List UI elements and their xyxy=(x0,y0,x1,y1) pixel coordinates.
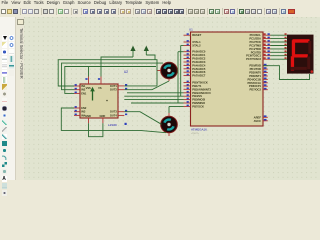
IC U2 body (L293D) xyxy=(80,84,118,118)
DC motor M1 xyxy=(161,62,178,79)
display pin 7 red number xyxy=(285,54,287,56)
U1 pin 13 XTAL1 xyxy=(184,41,191,43)
svg-text:PA6/ADC6: PA6/ADC6 xyxy=(192,70,206,74)
U1 pin 4 PB3/AIN1/OC0 xyxy=(184,92,191,94)
U1 pin 24 PC2/TCK xyxy=(263,41,271,43)
U1 pin 25 PC3/TMS xyxy=(263,45,271,47)
U2 pin OUT2 xyxy=(118,89,124,91)
svg-text:PD4/OC1B: PD4/OC1B xyxy=(248,77,262,81)
U1 pin 29 PC7/TOSC2 xyxy=(263,58,271,60)
U1 pin 20 PD6/ICP1 xyxy=(263,85,268,87)
U1 pin 8 PB7/SCK xyxy=(184,106,191,108)
display segment F (lit) xyxy=(292,40,295,56)
U2 pin OUT4 xyxy=(118,114,124,116)
wire U1 PC2/TCK to display pin 3 xyxy=(271,41,288,43)
display pin 4 red number xyxy=(285,44,287,46)
U2 hidden-text blue mark xyxy=(125,123,127,125)
svg-text:PA0/ADC0: PA0/ADC0 xyxy=(192,50,206,54)
svg-text:EN2: EN2 xyxy=(81,106,87,110)
svg-text:PD6/ICP1: PD6/ICP1 xyxy=(249,84,261,88)
U1 pin 18 PD4/OC1B xyxy=(263,78,268,80)
motor M1 bottom pin stub xyxy=(168,79,170,81)
display segment C (unlit) xyxy=(307,57,310,70)
7-segment display body xyxy=(287,35,314,74)
menu bar xyxy=(2,0,320,7)
U1 pin 23 PC1/SDA xyxy=(263,38,271,40)
schematic canvas xyxy=(24,17,320,180)
collapsed panel Terminal Selector - POWER xyxy=(16,17,25,180)
svg-text:PC7/TOSC2: PC7/TOSC2 xyxy=(246,57,261,61)
svg-text:PB3/AIN1/OC0: PB3/AIN1/OC0 xyxy=(192,91,211,95)
wire motor2 top to PB7 net xyxy=(168,107,170,114)
U2 bottom pin GND 1 xyxy=(88,118,90,123)
wire stub XTAL2 xyxy=(181,45,184,47)
U1 pin 21 PD7/OC2 xyxy=(263,89,268,91)
U1 pin 30 AVCC xyxy=(263,120,268,122)
U2 pin EN2 xyxy=(74,107,80,109)
U1 pin 39 PA1/ADC1 xyxy=(184,54,191,56)
U2 pin IN4 xyxy=(74,114,80,116)
display segment G (lit) xyxy=(292,54,308,57)
wire U1 PB bundle y=96.2 xyxy=(124,95,183,97)
display pin 3 red number xyxy=(285,40,287,42)
svg-text:AVCC: AVCC xyxy=(254,119,261,123)
display pin 2 red number xyxy=(285,37,287,39)
wire U2 EN1 loop xyxy=(65,67,156,94)
wire U1 PC5/TDI to display pin 6 xyxy=(271,51,288,53)
svg-text:VSS: VSS xyxy=(86,86,91,90)
motor M1 left pin xyxy=(157,70,161,72)
svg-text:PB0/T0/XCK: PB0/T0/XCK xyxy=(192,81,208,85)
U1 pin 28 PC6/TOSC1 xyxy=(263,55,271,57)
wire U2 VSS up xyxy=(88,67,90,77)
U1 pin 2 PB1/T1 xyxy=(184,85,191,87)
U2 pin IN3 xyxy=(74,111,80,113)
U2 pin OUT1 xyxy=(118,85,124,87)
wire U2 IN2 loop xyxy=(62,63,164,90)
wire U2 OUT3 diagonal to motor2 xyxy=(124,112,161,125)
U1 pin 12 XTAL2 xyxy=(184,45,191,47)
svg-text:OUT2: OUT2 xyxy=(110,88,117,92)
motor M2 bottom pin xyxy=(168,133,170,136)
U2 pin IN2 xyxy=(74,89,80,91)
svg-text:VS: VS xyxy=(98,86,102,90)
wire U1 PC6/TOSC1 to display pin 7 xyxy=(271,55,288,57)
U1 pin 1 PB0/T0/XCK xyxy=(184,82,191,84)
U1 pin 15 PD1/TXD xyxy=(263,68,268,70)
display segment B (unlit) xyxy=(308,41,311,54)
svg-text:RESET: RESET xyxy=(192,33,201,37)
wire U2 GND loop xyxy=(89,123,103,136)
display decimal point xyxy=(311,70,314,73)
U1 pin 27 PC5/TDI xyxy=(263,51,271,53)
svg-text:PB2/AIN0/INT2: PB2/AIN0/INT2 xyxy=(192,87,211,91)
left mode toolbar xyxy=(0,17,16,180)
U2 pin EN1 xyxy=(74,92,80,94)
display pin 8 red number xyxy=(285,57,287,59)
svg-text:PC6/TOSC1: PC6/TOSC1 xyxy=(246,54,261,58)
wire display common to U1 PD0 xyxy=(263,66,310,80)
svg-text:PA7/ADC7: PA7/ADC7 xyxy=(192,74,206,78)
svg-text:OUT3: OUT3 xyxy=(110,110,117,114)
U1 pin 16 PD2/INT0 xyxy=(263,72,268,74)
wire U1 PC1/SDA to display pin 2 xyxy=(271,38,288,40)
svg-text:PC4/TDO: PC4/TDO xyxy=(249,47,261,51)
svg-text:PD0/RXD: PD0/RXD xyxy=(249,64,261,68)
svg-text:PC1/SDA: PC1/SDA xyxy=(249,37,261,41)
wire U1 PC4/TDO to display pin 5 xyxy=(271,48,288,50)
svg-text:IN2: IN2 xyxy=(81,88,86,92)
power terminal 1 xyxy=(130,46,135,51)
U1 pin 40 PA0/ADC0 xyxy=(184,51,191,53)
svg-text:PD7/OC2: PD7/OC2 xyxy=(249,88,261,92)
U2 top pin VS xyxy=(100,77,102,85)
svg-text:GND: GND xyxy=(100,114,106,118)
display pin 6 red number xyxy=(285,50,287,52)
wire U1 PB bundle y=99.6 xyxy=(124,99,183,101)
wire U1 PB bundle y=103 xyxy=(131,102,184,104)
svg-text:PA3/ADC3: PA3/ADC3 xyxy=(192,60,206,64)
svg-text:PA4/ADC4: PA4/ADC4 xyxy=(192,63,206,67)
motor M2 top pin xyxy=(168,113,170,116)
wire power2 down to net xyxy=(146,55,155,60)
display segment E (lit) xyxy=(291,56,294,70)
svg-text:PB5/MOSI: PB5/MOSI xyxy=(192,98,205,102)
svg-text:PD1/TXD: PD1/TXD xyxy=(250,67,261,71)
svg-text:<TEXT>: <TEXT> xyxy=(191,132,200,135)
svg-text:PA1/ADC1: PA1/ADC1 xyxy=(192,53,206,57)
power terminal 2 xyxy=(144,46,149,51)
display segment D (unlit) xyxy=(291,67,307,70)
svg-text:PB4/SS: PB4/SS xyxy=(192,94,202,98)
display segment A (lit) xyxy=(293,39,310,43)
wire U2 OUT2 diagonal to motor1 xyxy=(124,81,169,90)
svg-text:PC0/SCL: PC0/SCL xyxy=(250,33,262,37)
U1 pin 33 PA7/ADC7 xyxy=(184,75,191,77)
wire U1 PB bundle y=92.8 xyxy=(127,92,184,94)
svg-text:PB7/SCK: PB7/SCK xyxy=(192,105,204,109)
U2 top pin VSS xyxy=(88,77,90,85)
U1 pin 19 PD5/OC1A xyxy=(263,82,268,84)
wire U1 PC3/TMS to display pin 4 xyxy=(271,45,288,47)
U1 pin 22 PC0/SCL xyxy=(263,34,271,36)
U1 pin 34 PA6/ADC6 xyxy=(184,71,191,73)
U1 pin 32 AREF xyxy=(263,116,268,118)
U1 pin 17 PD3/INT1 xyxy=(263,75,268,77)
wire stub PA0 xyxy=(178,51,184,53)
U1 pin 26 PC4/TDO xyxy=(263,48,271,50)
wire vertical run B near U1 xyxy=(177,52,179,103)
svg-text:PA2/ADC2: PA2/ADC2 xyxy=(192,57,206,61)
svg-text:PB6/MISO: PB6/MISO xyxy=(192,101,205,105)
svg-text:XTAL1: XTAL1 xyxy=(192,40,201,44)
U1 pin 6 PB5/MOSI xyxy=(184,99,191,101)
U2 pin OUT3 xyxy=(118,111,124,113)
svg-text:IN1: IN1 xyxy=(81,84,86,88)
svg-text:EN1: EN1 xyxy=(81,91,87,95)
U1 pin 36 PA4/ADC4 xyxy=(184,64,191,66)
svg-text:OUT4: OUT4 xyxy=(110,113,117,117)
svg-text:GND: GND xyxy=(85,114,91,118)
U1 pin 7 PB6/MISO xyxy=(184,102,191,104)
U1 pin 9 RESET xyxy=(184,34,191,36)
main toolbar xyxy=(0,7,320,19)
DC motor M2 xyxy=(161,116,178,133)
wire vertical run A near U1 xyxy=(180,46,182,97)
IC U1 body xyxy=(191,32,264,126)
svg-text:AREF: AREF xyxy=(254,115,262,119)
svg-text:PB1/T1: PB1/T1 xyxy=(192,84,202,88)
U1 pin 37 PA3/ADC3 xyxy=(184,61,191,63)
svg-text:L293D: L293D xyxy=(108,123,118,127)
canvas background grid xyxy=(24,17,320,180)
svg-text:PD3/INT1: PD3/INT1 xyxy=(249,74,261,78)
wire U2 OUT1 to motor1 column xyxy=(124,85,157,87)
svg-text:IN4: IN4 xyxy=(81,113,86,117)
svg-text:IN3: IN3 xyxy=(81,110,86,114)
wire U1 PB bundle y=106.5 xyxy=(169,106,184,108)
U1 pin 3 PB2/AIN0/INT2 xyxy=(184,88,191,90)
svg-text:PD2/INT0: PD2/INT0 xyxy=(249,71,261,75)
U1 pin 5 PB4/SS xyxy=(184,95,191,97)
U1 pin 35 PA5/ADC5 xyxy=(184,68,191,70)
U2 bottom pin GND 2 xyxy=(102,118,104,123)
svg-text:PC5/TDI: PC5/TDI xyxy=(251,50,262,54)
U2 internal arrow symbol xyxy=(92,91,94,101)
U1 pin 14 PD0/RXD xyxy=(263,65,268,67)
wire U1 PC0/SCL to display pin 1 xyxy=(271,34,288,36)
wire U2 EN2 loop to motor2 bottom xyxy=(61,108,166,133)
svg-text:PC3/TMS: PC3/TMS xyxy=(249,44,261,48)
wire U2 IN1 loop to motor1 column xyxy=(58,60,157,86)
svg-text:PC2/TCK: PC2/TCK xyxy=(250,40,262,44)
wire power1 to U2 VS xyxy=(101,57,133,77)
display pin 1 red number xyxy=(285,33,287,35)
svg-text:U1: U1 xyxy=(189,28,193,32)
svg-text:U2: U2 xyxy=(124,70,128,74)
svg-text:PA5/ADC5: PA5/ADC5 xyxy=(192,67,206,71)
U2 pin IN1 xyxy=(74,85,80,87)
svg-text:OUT1: OUT1 xyxy=(110,84,117,88)
display pin 5 red number xyxy=(285,47,287,49)
U1 pin 38 PA2/ADC2 xyxy=(184,58,191,60)
wire U1 PC7/TOSC2 to display pin 8 xyxy=(271,58,288,60)
svg-text:ATMEGA16: ATMEGA16 xyxy=(191,128,207,132)
svg-text:XTAL2: XTAL2 xyxy=(192,44,201,48)
svg-text:PD5/OC1A: PD5/OC1A xyxy=(248,81,262,85)
